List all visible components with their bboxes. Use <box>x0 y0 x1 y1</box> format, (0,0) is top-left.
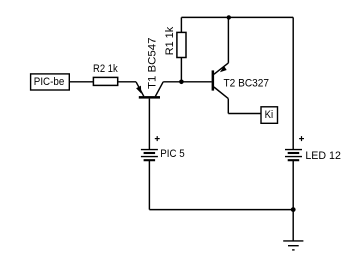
svg-text:LED 12: LED 12 <box>305 150 341 162</box>
wire PIC-be to R2 <box>69 81 93 83</box>
short plate 2 <box>288 159 300 161</box>
svg-text:R1 1k: R1 1k <box>164 26 176 55</box>
wire node to T2 base <box>181 81 211 83</box>
bottom junction dot <box>291 207 296 212</box>
long plate 1 <box>285 149 302 151</box>
svg-text:PIC-be: PIC-be <box>34 76 65 88</box>
T2 emitter diagonal <box>214 63 229 74</box>
short plate 2 <box>144 159 156 161</box>
battery PIC 5 lower lead <box>148 160 150 209</box>
ground <box>283 241 303 250</box>
T1 base lead down <box>148 99 150 150</box>
T2 collector lead down <box>227 99 229 114</box>
transistor T1 BC547 <box>136 38 163 150</box>
wire R2 to T1 emitter <box>118 81 136 83</box>
R1 body <box>177 32 186 57</box>
top rail junction dot <box>227 15 231 19</box>
svg-text:PIC 5: PIC 5 <box>160 148 184 160</box>
bottom wire <box>149 209 293 211</box>
svg-text:T2 BC327: T2 BC327 <box>224 77 270 89</box>
battery PIC 5 <box>141 136 185 160</box>
long plate 2 <box>141 156 158 158</box>
box Ki <box>261 107 278 124</box>
T2 emitter lead from rail <box>227 17 229 63</box>
battery LED 12 <box>285 136 341 162</box>
right rail lower wire <box>292 160 294 241</box>
top rail wire <box>181 16 293 18</box>
long plate 1 <box>141 149 158 151</box>
wire T2 collector to Ki <box>228 113 261 115</box>
box PIC-be <box>31 74 70 90</box>
transistor T2 BC327 <box>212 17 269 113</box>
short plate 1 <box>144 152 156 154</box>
R1 lower lead <box>180 58 182 82</box>
svg-text:R2 1k: R2 1k <box>93 63 118 75</box>
T1 emitter diagonal <box>136 82 144 97</box>
right rail upper wire <box>292 17 294 149</box>
wire T1 collector to node <box>163 81 181 83</box>
long plate 2 <box>285 156 302 158</box>
svg-text:Ki: Ki <box>265 109 274 121</box>
T1 collector diagonal <box>155 82 163 97</box>
R1 upper lead <box>180 17 182 32</box>
plus sign <box>299 138 304 140</box>
T1 emitter arrow <box>136 86 141 94</box>
plus sign <box>155 138 160 140</box>
T2 emitter arrow <box>220 66 227 72</box>
short plate 1 <box>288 152 300 154</box>
resistor R1 1k <box>164 17 186 81</box>
svg-text:T1 BC547: T1 BC547 <box>147 38 159 90</box>
node junction dot <box>179 80 184 85</box>
T1 base bar <box>139 96 160 99</box>
T2 collector diagonal <box>214 87 228 99</box>
T2 base bar <box>212 70 215 90</box>
resistor R2 1k <box>93 63 118 85</box>
